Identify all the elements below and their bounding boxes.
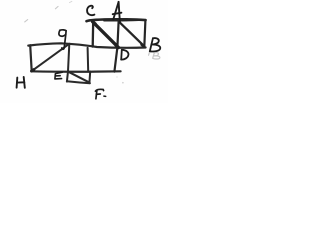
faint pencil speck upper-left 2 xyxy=(69,1,72,2)
wire bottom horizontal line xyxy=(31,70,120,73)
ghost faint apostrophe-B mark right of D xyxy=(149,53,160,59)
wire vertical above H corner xyxy=(30,45,32,71)
wire vertical under C xyxy=(92,21,95,47)
wire mid horizontal line H-row xyxy=(28,43,145,48)
label C xyxy=(87,6,94,15)
junction blob at D corner where diagonal meets xyxy=(116,45,118,47)
faint pencil speck left 3 xyxy=(25,20,28,22)
label H xyxy=(17,77,25,88)
faint dot near right bottom xyxy=(116,76,117,77)
paper background xyxy=(0,0,168,103)
wire vertical under A down to D corner xyxy=(114,20,118,72)
label G xyxy=(59,30,66,49)
wire vertical left edge of middle bottom square xyxy=(87,48,90,71)
wire right edge of small E square xyxy=(88,72,91,84)
wire vertical under G continuing to E-square xyxy=(67,44,69,82)
faint dot below D xyxy=(122,82,124,84)
junction blob at C corner xyxy=(93,22,96,24)
wire bottom edge of small E square xyxy=(67,81,90,83)
wire vertical under B corner xyxy=(144,20,145,47)
label D xyxy=(121,50,128,60)
label A xyxy=(113,2,122,23)
label B xyxy=(150,38,160,51)
label F with period xyxy=(95,89,105,98)
junction blob at B bottom corner xyxy=(142,45,144,47)
diagonal of left top square (double stroked) xyxy=(93,22,119,48)
faint pencil speck upper-left 1 xyxy=(55,6,58,8)
diagonal of left rectangle from H corner xyxy=(32,44,69,71)
wire top line second pen pass xyxy=(104,19,139,21)
label E xyxy=(55,72,62,79)
diagonal of small E square xyxy=(68,72,89,83)
wire top horizontal CA-B line xyxy=(87,19,146,21)
diagonal of right top square xyxy=(120,22,145,46)
junction blob at H corner xyxy=(32,70,34,71)
